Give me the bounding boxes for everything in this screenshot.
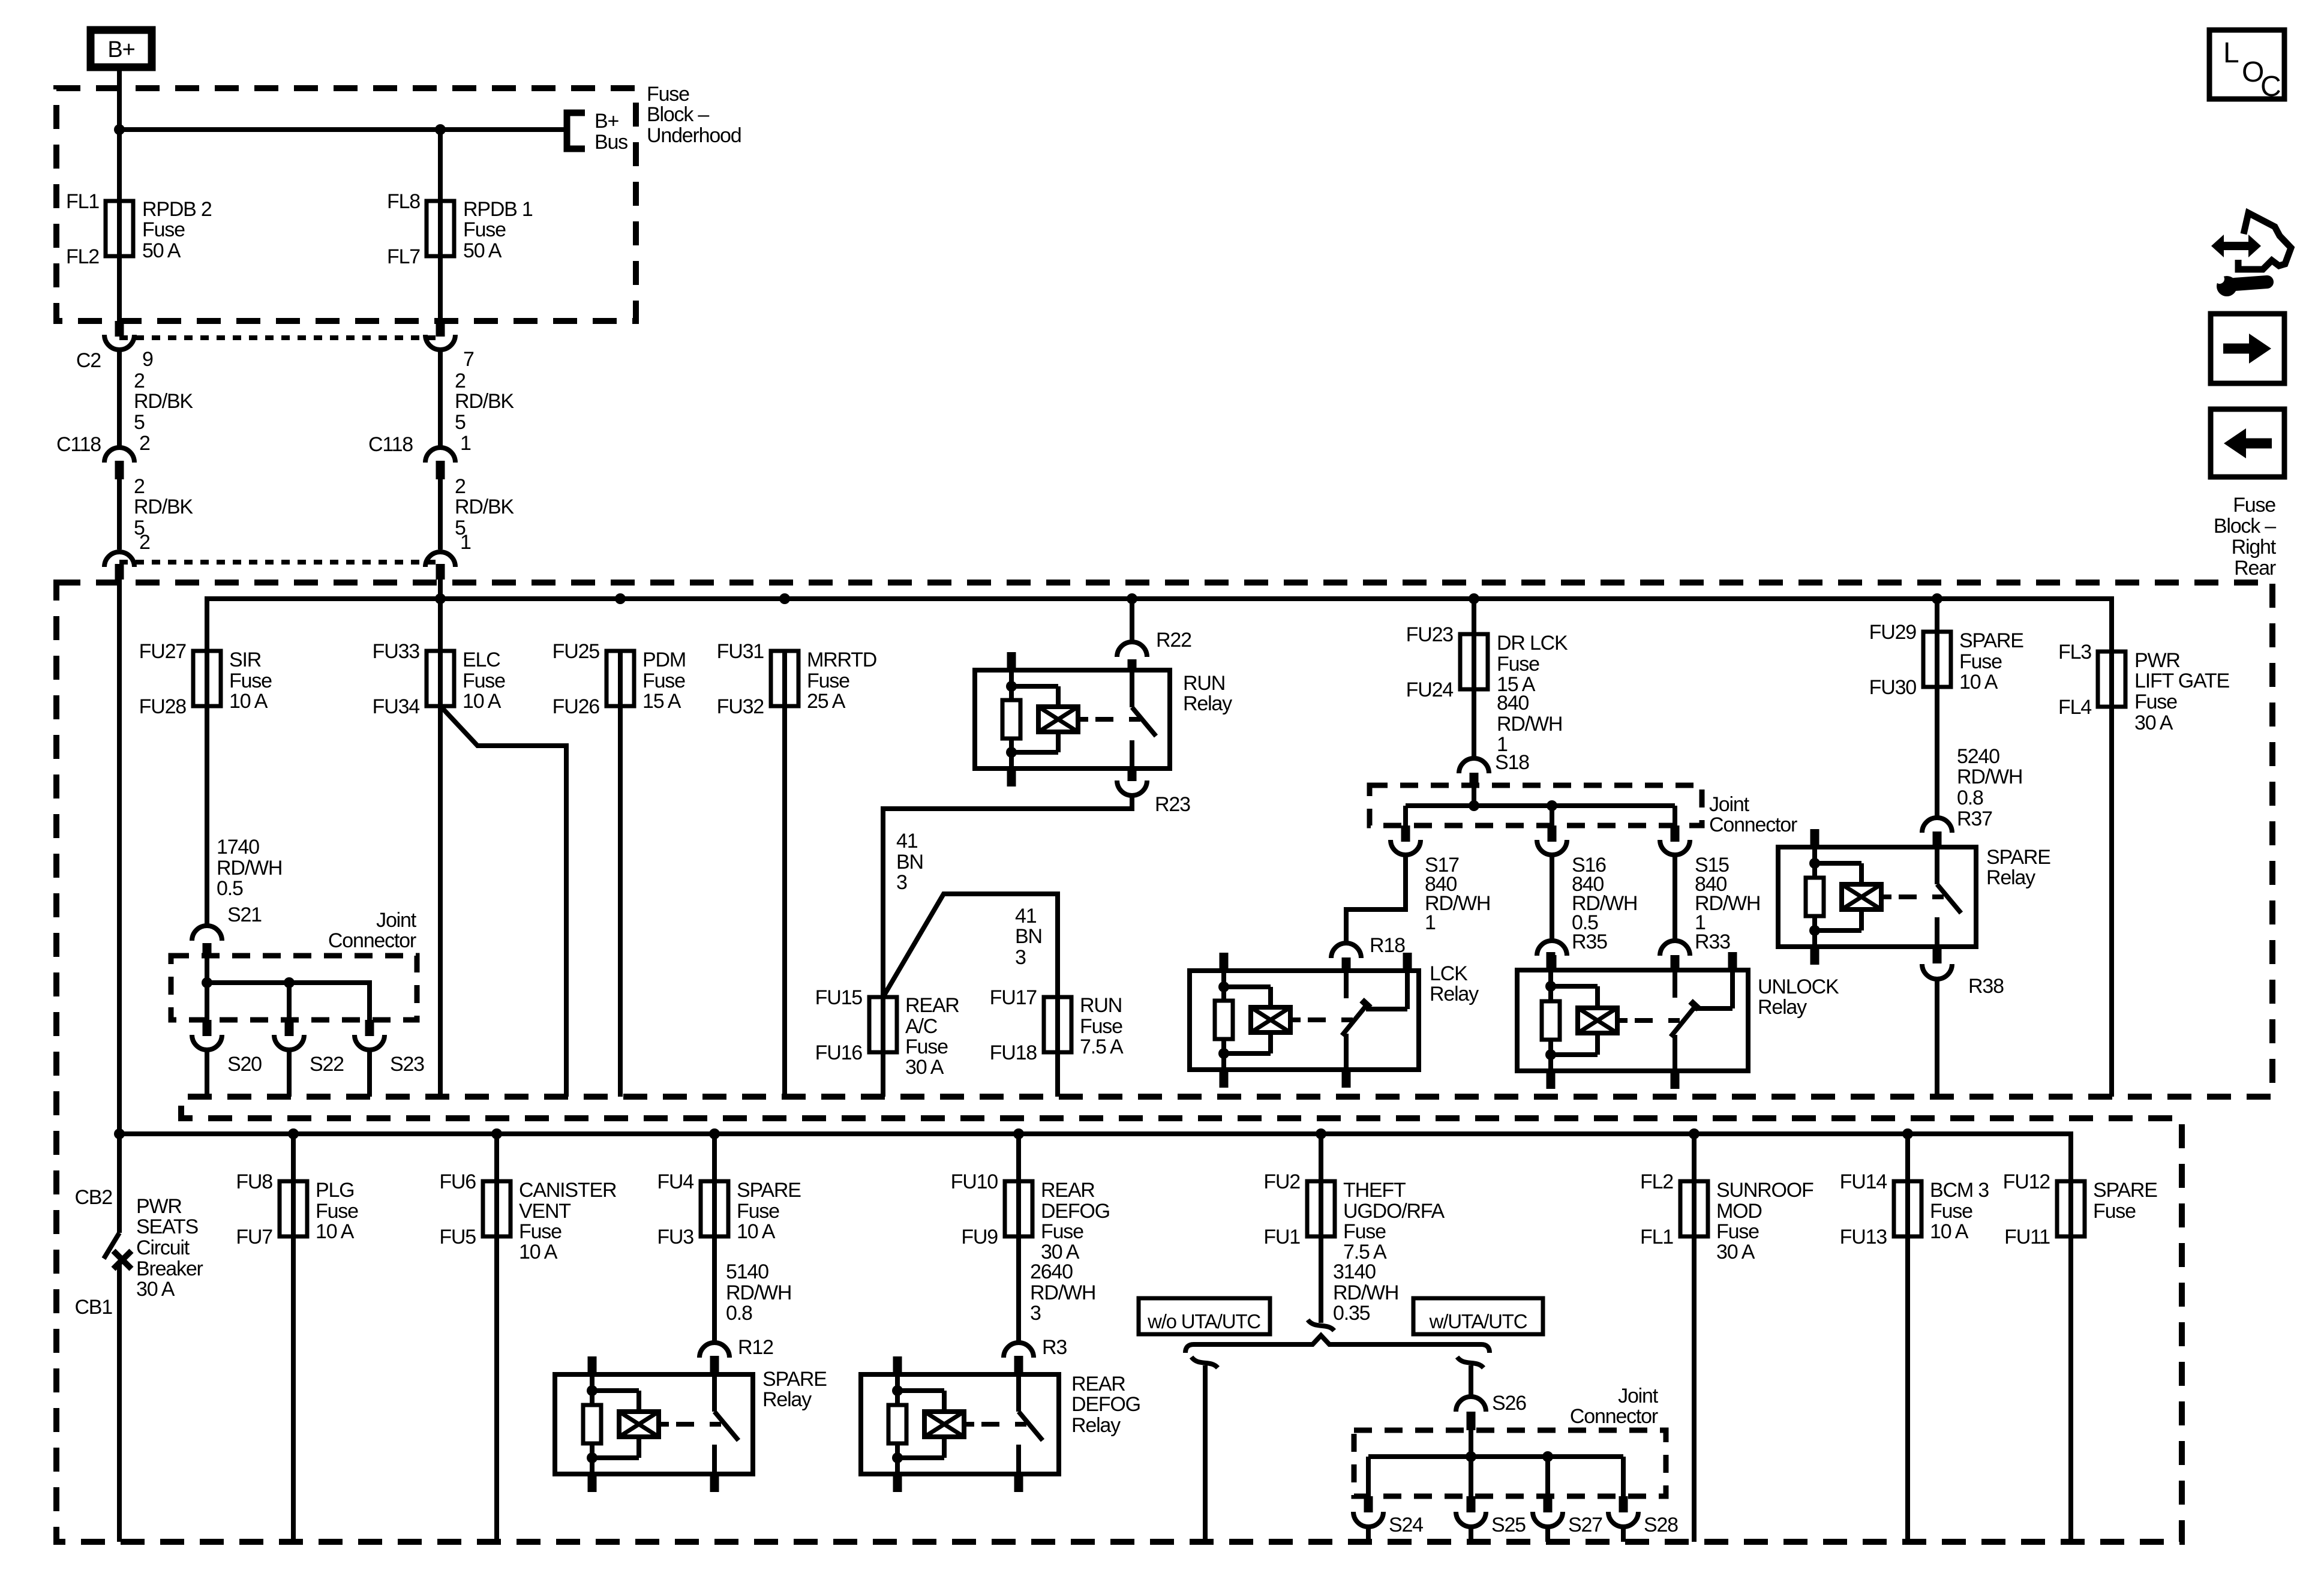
svg-text:Relay: Relay: [762, 1388, 812, 1411]
svg-text:RD/BK: RD/BK: [134, 390, 193, 413]
block inline connector pin 2: [104, 552, 134, 567]
svg-text:S25: S25: [1491, 1514, 1526, 1536]
svg-text:Fuse: Fuse: [142, 218, 185, 241]
circuit breaker CB2/CB1 PWR SEATS: [104, 1233, 119, 1259]
relay REAR DEFOG switch: [1016, 1374, 1021, 1412]
relay LCK coil branch wiring: [1221, 971, 1226, 987]
svg-text:Breaker: Breaker: [136, 1257, 203, 1280]
relay SPARE lower body: [555, 1374, 753, 1474]
svg-text:RUN: RUN: [1183, 672, 1225, 695]
svg-text:2: 2: [134, 475, 145, 498]
svg-text:2: 2: [134, 370, 145, 392]
connector C118 pin 2: [104, 448, 134, 463]
fuse FU2/FU1: [1319, 1134, 1323, 1181]
forward arrow box: [2211, 314, 2284, 383]
wire bus to FL1: [117, 130, 122, 201]
connector R18: [1331, 943, 1361, 958]
connector R3: [1004, 1343, 1034, 1358]
wire FU26 to block edge: [618, 706, 623, 1097]
svg-text:REAR: REAR: [1071, 1373, 1125, 1395]
junction FU6: [491, 1128, 502, 1139]
wire break squiggle below FU1: [1308, 1320, 1334, 1331]
svg-text:RPDB 2: RPDB 2: [142, 198, 212, 221]
svg-text:SPARE: SPARE: [737, 1179, 801, 1202]
vehicle double-arrow icon outline: [2238, 213, 2291, 269]
splice S26: [1456, 1397, 1486, 1412]
wire FU9 to R3: [1016, 1236, 1021, 1341]
wire S23 to block edge: [367, 1052, 372, 1097]
svg-text:FU2: FU2: [1263, 1170, 1300, 1193]
splice S20 pin: [203, 1020, 212, 1036]
wire block connector to bus (x734): [438, 580, 443, 651]
svg-text:Fuse: Fuse: [463, 218, 506, 241]
wire FU18 to block edge: [1055, 1052, 1060, 1097]
svg-text:REAR: REAR: [1041, 1179, 1095, 1202]
svg-text:PDM: PDM: [642, 649, 686, 671]
wire S27 to block edge: [1545, 1529, 1550, 1542]
svg-text:THEFT: THEFT: [1343, 1179, 1406, 1202]
relay SPARE upper resistor: [1806, 878, 1824, 916]
junction at FL1 feed: [114, 124, 125, 135]
fuse block internal bus (lower): [119, 1134, 2071, 1181]
svg-text:FU26: FU26: [553, 695, 600, 718]
svg-text:FU7: FU7: [236, 1226, 272, 1248]
svg-text:LIFT GATE: LIFT GATE: [2134, 670, 2229, 692]
svg-text:50 A: 50 A: [142, 239, 181, 262]
splice S27 cup: [1533, 1512, 1563, 1527]
svg-text:FL4: FL4: [2058, 696, 2091, 719]
relay SPARE upper switch: [1935, 847, 1939, 884]
svg-text:10 A: 10 A: [1959, 671, 1998, 694]
svg-text:10 A: 10 A: [229, 690, 268, 713]
relay SPARE upper switch bottom pin: [1933, 947, 1942, 963]
wire FU7 to block edge: [291, 1236, 296, 1542]
svg-text:DEFOG: DEFOG: [1041, 1200, 1110, 1223]
relay SPARE lower switch: [712, 1374, 717, 1412]
svg-text:5: 5: [134, 411, 145, 434]
svg-text:FU28: FU28: [139, 695, 187, 718]
svg-text:10 A: 10 A: [463, 690, 502, 713]
svg-text:FL7: FL7: [387, 245, 420, 268]
splice S24 pin: [1364, 1496, 1373, 1512]
relay SPARE upper coil branch wiring: [1812, 847, 1817, 863]
svg-text:SPARE: SPARE: [762, 1368, 827, 1391]
fuse FU8/FU7: [291, 1134, 296, 1181]
back arrow box: [2211, 409, 2284, 477]
svg-text:DR LCK: DR LCK: [1497, 632, 1568, 655]
svg-text:RD/BK: RD/BK: [134, 496, 193, 518]
svg-text:L: L: [2223, 37, 2239, 69]
junction RUN relay feed: [1127, 593, 1137, 604]
svg-text:10 A: 10 A: [519, 1241, 558, 1263]
wire S20 to block edge: [205, 1052, 209, 1097]
svg-text:30 A: 30 A: [2134, 712, 2173, 734]
svg-text:FU31: FU31: [717, 640, 764, 663]
relay REAR DEFOG coil pin stubs: [893, 1356, 902, 1374]
splice S16 cup: [1537, 840, 1567, 855]
svg-text:1: 1: [460, 432, 471, 455]
relay UNLOCK switch: [1673, 970, 1677, 998]
wire S28 to block edge: [1621, 1529, 1626, 1542]
svg-text:C118: C118: [368, 433, 413, 456]
joint connector box (S24/S25/S27/S28): [1354, 1430, 1666, 1496]
svg-text:UNLOCK: UNLOCK: [1758, 975, 1839, 998]
svg-text:S27: S27: [1568, 1514, 1602, 1536]
relay RUN coil-to-switch dashed link: [1078, 717, 1088, 722]
connector R37: [1922, 818, 1952, 833]
connector C2 pin 7 (right): [436, 321, 445, 337]
junction SPARE fuse FU29: [1932, 593, 1942, 604]
junction at FL8 feed: [435, 124, 446, 135]
fuse FU29/FU30 SPARE: [1935, 632, 1939, 687]
relay SPARE upper body: [1778, 847, 1976, 947]
connector face dotted line C2: [119, 335, 440, 340]
svg-text:FU12: FU12: [2003, 1170, 2050, 1193]
svg-text:R35: R35: [1572, 930, 1607, 953]
svg-text:FU17: FU17: [990, 986, 1037, 1009]
svg-text:5240: 5240: [1957, 745, 1999, 768]
svg-text:SUNROOF: SUNROOF: [1716, 1179, 1813, 1202]
svg-text:0.5: 0.5: [217, 877, 243, 900]
svg-text:SPARE: SPARE: [1986, 846, 2050, 869]
svg-text:RD/BK: RD/BK: [455, 496, 514, 518]
junction S26 into bus: [1466, 1451, 1476, 1462]
junction S22 leg: [284, 977, 295, 988]
svg-text:S23: S23: [390, 1053, 424, 1076]
wire C2 to C118 (right): [438, 350, 443, 446]
joint connector box (S20/S22/S23): [171, 956, 417, 1020]
joint connector internal bus: [207, 956, 370, 1020]
splice S27 pin: [1544, 1496, 1553, 1512]
svg-text:2: 2: [139, 531, 150, 554]
svg-text:PLG: PLG: [316, 1179, 354, 1202]
relay RUN resistor: [1002, 700, 1020, 739]
svg-text:FU14: FU14: [1840, 1170, 1887, 1193]
svg-text:Relay: Relay: [1986, 866, 2035, 889]
wire branch to RUN fuse (diagonal): [883, 894, 1058, 997]
svg-text:C2: C2: [76, 349, 101, 372]
wire C118 to block connector (left): [117, 479, 122, 550]
wire FL7 to connector C2 pin: [438, 256, 443, 321]
junction FU10: [1013, 1128, 1024, 1139]
svg-text:C: C: [2260, 71, 2280, 103]
svg-text:Fuse: Fuse: [2093, 1200, 2136, 1223]
splice S15 cup: [1660, 840, 1690, 855]
svg-text:FL2: FL2: [66, 245, 99, 268]
svg-text:SEATS: SEATS: [136, 1215, 198, 1238]
svg-text:Fuse: Fuse: [463, 670, 505, 692]
block inline connector pin 1: [425, 552, 455, 567]
wire FU24 to S18: [1472, 689, 1476, 757]
wire S16 to R35: [1550, 857, 1554, 939]
wire FU34 branch diagonal-right-down: [442, 708, 566, 1097]
splice S22 cup: [274, 1035, 304, 1050]
svg-text:10 A: 10 A: [316, 1220, 355, 1243]
wire block connector to lower bus (x199): [117, 580, 122, 1134]
svg-text:Relay: Relay: [1430, 983, 1479, 1005]
splice S22 pin: [285, 1020, 294, 1036]
relay UNLOCK coil pin stub (top): [1547, 952, 1556, 970]
svg-text:R38: R38: [1968, 975, 2004, 998]
svg-text:FL1: FL1: [66, 190, 99, 213]
splice S15 pin: [1671, 825, 1680, 842]
relay REAR DEFOG coil branch wiring: [895, 1374, 900, 1391]
connector R12: [699, 1343, 729, 1358]
wire C2 to C118 (left): [117, 350, 122, 446]
fuse FU12/FU11 SPARE (corner feed): [2068, 1181, 2073, 1236]
relay REAR DEFOG resistor: [888, 1405, 906, 1443]
relay UNLOCK resistor: [1542, 1001, 1560, 1040]
svg-text:2: 2: [139, 432, 150, 455]
wire FU5 to block edge: [494, 1236, 499, 1542]
back arrow: [2244, 439, 2272, 449]
wire FU3 to R12: [712, 1236, 717, 1341]
svg-text:w/UTA/UTC: w/UTA/UTC: [1429, 1310, 1527, 1332]
svg-text:41: 41: [1015, 905, 1037, 927]
svg-text:RD/WH: RD/WH: [1333, 1281, 1398, 1304]
relay SPARE lower coil-to-switch dashed link: [659, 1422, 669, 1427]
fuse FU14/FU13: [1905, 1134, 1910, 1181]
svg-text:2640: 2640: [1030, 1260, 1073, 1283]
svg-text:Fuse: Fuse: [316, 1200, 358, 1223]
fuse FU17/FU18 RUN: [1055, 997, 1060, 1052]
svg-text:0.8: 0.8: [1957, 787, 1983, 809]
svg-text:3140: 3140: [1333, 1260, 1376, 1283]
svg-text:Joint: Joint: [1709, 793, 1750, 816]
fuse FL2/FL1: [1692, 1134, 1697, 1181]
relay RUN body: [975, 670, 1170, 769]
fuse FL1/FL2 RPDB 2: [117, 201, 122, 256]
wire FU32 to block edge: [782, 706, 787, 1097]
connector C118 pin 1: [425, 448, 455, 463]
connector R22: [1117, 642, 1147, 657]
junction FU2: [1316, 1128, 1326, 1139]
svg-text:PWR: PWR: [2134, 649, 2180, 672]
svg-text:7.5 A: 7.5 A: [1080, 1035, 1124, 1058]
svg-text:Connector: Connector: [1570, 1405, 1658, 1428]
wire bus to DR LCK fuse: [1472, 599, 1476, 634]
junction FU14: [1902, 1128, 1913, 1139]
svg-text:Joint: Joint: [376, 909, 417, 932]
connector R33: [1660, 941, 1690, 956]
junction S18 into bus: [1469, 800, 1479, 811]
splice S23 pin: [365, 1020, 374, 1036]
junction MRRTD: [779, 593, 790, 604]
svg-text:30 A: 30 A: [136, 1278, 175, 1301]
splice S23 cup: [355, 1035, 385, 1050]
svg-text:2: 2: [455, 370, 466, 392]
wire bus to FU29: [1935, 599, 1939, 632]
underhood bus wire: [119, 127, 567, 132]
relay SPARE lower resistor: [583, 1405, 601, 1443]
relay SPARE lower coil branch wiring: [590, 1374, 594, 1391]
svg-text:FU11: FU11: [2004, 1226, 2050, 1248]
svg-text:30 A: 30 A: [905, 1056, 944, 1079]
splice S25 cup: [1456, 1512, 1486, 1527]
svg-text:ELC: ELC: [463, 649, 500, 671]
svg-text:FU1: FU1: [1263, 1226, 1300, 1248]
wire bus to R22: [1130, 599, 1134, 640]
svg-text:CB1: CB1: [74, 1296, 112, 1319]
fuse FU23/FU24 DR LCK: [1472, 634, 1476, 689]
junction FU8: [288, 1128, 299, 1139]
svg-text:RD/WH: RD/WH: [1030, 1281, 1095, 1304]
svg-text:S24: S24: [1389, 1514, 1423, 1536]
splice S24 cup: [1353, 1512, 1383, 1527]
svg-text:FU33: FU33: [373, 640, 420, 663]
relay SPARE upper coil: [1842, 884, 1881, 909]
relay LCK bottom pin stubs: [1220, 1070, 1229, 1088]
relay LCK output pin stub (top): [1403, 953, 1412, 971]
svg-text:Fuse: Fuse: [2233, 494, 2275, 517]
svg-text:FL3: FL3: [2058, 641, 2091, 664]
svg-text:Fuse: Fuse: [1343, 1220, 1386, 1243]
svg-text:B+: B+: [594, 110, 618, 133]
svg-text:FU23: FU23: [1406, 623, 1454, 646]
w/ branch squiggle: [1457, 1357, 1484, 1368]
wire CB1 to block edge: [117, 1263, 122, 1542]
svg-text:3: 3: [896, 871, 907, 894]
option label box w/o UTA/UTC: [1139, 1298, 1270, 1334]
svg-text:Relay: Relay: [1758, 996, 1807, 1019]
relay RUN switch: [1130, 670, 1134, 707]
splice S28 pin: [1619, 1496, 1628, 1512]
option label box w/UTA/UTC: [1413, 1298, 1543, 1334]
junction DR LCK: [1469, 593, 1479, 604]
svg-text:CB2: CB2: [74, 1186, 112, 1209]
option selection brace: [1185, 1335, 1490, 1353]
splice S20 cup: [192, 1035, 222, 1050]
svg-text:1740: 1740: [217, 836, 259, 858]
svg-text:0.35: 0.35: [1333, 1302, 1370, 1325]
svg-text:FU10: FU10: [951, 1170, 998, 1193]
wire FU28 to S21: [205, 706, 209, 924]
svg-text:Fuse: Fuse: [737, 1200, 779, 1223]
svg-text:SPARE: SPARE: [2093, 1179, 2157, 1202]
svg-text:Relay: Relay: [1183, 692, 1232, 715]
fuse FU25/FU26 PDM: [618, 651, 623, 706]
vehicle icon double arrow: [2221, 242, 2251, 250]
junction S20 leg: [202, 977, 212, 988]
svg-text:FU18: FU18: [990, 1041, 1037, 1064]
splice S28 cup: [1608, 1512, 1638, 1527]
relay REAR DEFOG switch bottom pin: [1014, 1474, 1023, 1492]
relay LCK coil pin stub (top): [1220, 953, 1229, 971]
wire FU16 to block edge: [881, 1052, 885, 1097]
svg-text:FU29: FU29: [1869, 621, 1917, 644]
svg-text:10 A: 10 A: [1930, 1220, 1969, 1243]
B+ Bus bracket terminal: [567, 113, 585, 149]
svg-text:10 A: 10 A: [737, 1220, 776, 1243]
fuse FU31/FU32 MRRTD: [782, 651, 787, 706]
power symbol B+ box: [91, 30, 152, 67]
svg-text:5: 5: [455, 411, 466, 434]
wire FU13 to block edge: [1905, 1236, 1910, 1542]
connector R23: [1117, 781, 1147, 795]
relay RUN coil branch wiring: [1009, 670, 1014, 686]
svg-text:Fuse: Fuse: [1080, 1015, 1122, 1038]
svg-text:FL2: FL2: [1640, 1170, 1673, 1193]
fuse FU4/FU3: [712, 1134, 717, 1181]
svg-text:FU24: FU24: [1406, 679, 1454, 701]
svg-text:FU5: FU5: [439, 1226, 476, 1248]
vehicle icon wrench: [2217, 276, 2237, 296]
wire bus to circuit breaker: [117, 1134, 122, 1233]
svg-text:PWR: PWR: [136, 1195, 182, 1218]
svg-text:Relay: Relay: [1071, 1414, 1121, 1437]
svg-text:Fuse: Fuse: [642, 670, 685, 692]
svg-text:15 A: 15 A: [642, 690, 681, 713]
Fuse Block - Right Rear dashed outline (both compartments): [56, 583, 2272, 1542]
svg-text:RD/WH: RD/WH: [1957, 766, 2022, 788]
svg-text:R3: R3: [1042, 1336, 1067, 1359]
svg-text:Fuse: Fuse: [1497, 653, 1539, 676]
svg-text:Fuse: Fuse: [229, 670, 272, 692]
wire FL2 to connector C2 pin: [117, 256, 122, 321]
svg-text:UGDO/RFA: UGDO/RFA: [1343, 1200, 1445, 1223]
wire FU34 straight down to block edge: [438, 706, 443, 1097]
fuse FL3/FL4 PWR LIFT GATE: [2109, 652, 2114, 707]
svg-text:C118: C118: [56, 433, 101, 456]
svg-text:RD/BK: RD/BK: [455, 390, 514, 413]
svg-text:Fuse: Fuse: [1041, 1220, 1083, 1243]
svg-text:LCK: LCK: [1430, 962, 1468, 985]
junction CB feed: [114, 1128, 125, 1139]
relay RUN coil pin stubs: [1007, 652, 1016, 670]
svg-text:3: 3: [1015, 946, 1026, 969]
wire R38 to block edge: [1935, 981, 1939, 1097]
fuse FU6/FU5: [494, 1134, 499, 1181]
svg-text:FU30: FU30: [1869, 676, 1917, 699]
Fuse Block - Underhood dashed box: [56, 88, 636, 321]
splice S17 cup: [1391, 840, 1421, 855]
svg-text:Connector: Connector: [1709, 813, 1797, 836]
w/o branch squiggle: [1191, 1357, 1218, 1368]
fuse FL8/FL7 RPDB 1: [438, 201, 443, 256]
relay UNLOCK coil-to-switch dashed link: [1617, 1018, 1628, 1023]
svg-text:1: 1: [460, 531, 471, 554]
svg-text:VENT: VENT: [519, 1200, 571, 1223]
svg-text:Fuse: Fuse: [1959, 650, 2002, 673]
svg-text:S22: S22: [310, 1053, 344, 1076]
svg-text:Fuse: Fuse: [519, 1220, 562, 1243]
svg-text:FU15: FU15: [815, 986, 863, 1009]
svg-text:FU4: FU4: [657, 1170, 693, 1193]
svg-text:5140: 5140: [726, 1260, 768, 1283]
svg-text:FU9: FU9: [961, 1226, 998, 1248]
relay UNLOCK body: [1517, 970, 1748, 1071]
junction FL2: [1689, 1128, 1700, 1139]
svg-text:R18: R18: [1370, 934, 1405, 957]
splice S17 pin: [1401, 825, 1410, 842]
svg-text:3: 3: [1030, 1302, 1041, 1325]
relay SPARE lower switch bottom pin: [710, 1474, 719, 1492]
svg-text:SIR: SIR: [229, 649, 261, 671]
relay SPARE lower coil pin stubs: [588, 1356, 597, 1374]
svg-text:B+: B+: [107, 37, 134, 62]
svg-text:RD/WH: RD/WH: [1497, 713, 1562, 736]
joint connector internal bus (door lock): [1406, 785, 1675, 825]
svg-text:840: 840: [1497, 692, 1529, 715]
svg-text:FU8: FU8: [236, 1170, 272, 1193]
svg-text:FU16: FU16: [815, 1041, 863, 1064]
connector R35: [1537, 941, 1567, 956]
junction ELC: [435, 593, 446, 604]
svg-text:Block –: Block –: [2214, 515, 2276, 538]
svg-text:Bus: Bus: [594, 131, 627, 154]
svg-text:DEFOG: DEFOG: [1071, 1393, 1140, 1416]
svg-text:BN: BN: [896, 851, 923, 873]
